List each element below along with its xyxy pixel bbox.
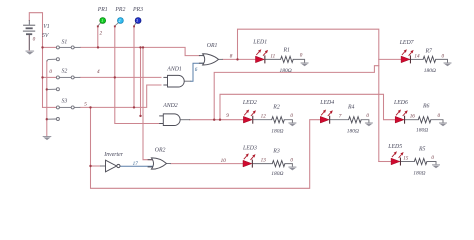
- svg-text:4: 4: [97, 68, 100, 75]
- svg-text:PR3: PR3: [132, 7, 143, 13]
- svg-text:0: 0: [33, 36, 36, 42]
- svg-text:LED5: LED5: [387, 144, 402, 150]
- svg-text:180Ω: 180Ω: [280, 68, 292, 74]
- svg-text:S2: S2: [62, 69, 68, 75]
- svg-text:10: 10: [221, 158, 227, 164]
- svg-text:R5: R5: [418, 146, 426, 152]
- svg-text:180Ω: 180Ω: [271, 129, 283, 135]
- svg-text:17: 17: [133, 161, 139, 167]
- svg-text:R7: R7: [425, 49, 434, 55]
- svg-text:0: 0: [366, 113, 369, 119]
- svg-text:180Ω: 180Ω: [347, 129, 359, 135]
- svg-text:LED4: LED4: [319, 99, 334, 106]
- svg-text:9: 9: [226, 113, 229, 119]
- svg-text:13: 13: [261, 157, 267, 163]
- svg-text:AND2: AND2: [162, 103, 178, 109]
- svg-text:LED2: LED2: [242, 100, 257, 106]
- svg-text:180Ω: 180Ω: [416, 128, 428, 134]
- svg-text:S3: S3: [62, 99, 68, 105]
- svg-text:1: 1: [101, 19, 103, 23]
- svg-text:0: 0: [438, 113, 441, 119]
- svg-text:8: 8: [230, 54, 233, 60]
- svg-text:5: 5: [84, 101, 87, 107]
- svg-text:LED3: LED3: [242, 146, 257, 152]
- svg-text:11: 11: [270, 54, 275, 60]
- svg-text:180Ω: 180Ω: [413, 170, 425, 176]
- svg-text:OR2: OR2: [155, 147, 166, 153]
- svg-text:12: 12: [261, 113, 267, 119]
- svg-text:LED1: LED1: [252, 40, 267, 46]
- svg-text:Inverter: Inverter: [103, 152, 123, 158]
- svg-text:S1: S1: [62, 39, 68, 45]
- svg-text:OR1: OR1: [207, 43, 218, 49]
- svg-text:LED6: LED6: [393, 100, 408, 106]
- svg-text:PR2: PR2: [114, 7, 125, 13]
- svg-text:180Ω: 180Ω: [424, 68, 436, 74]
- svg-text:0: 0: [49, 69, 52, 75]
- svg-text:PR1: PR1: [97, 7, 108, 13]
- svg-text:AND1: AND1: [166, 66, 182, 72]
- svg-text:0: 0: [290, 113, 293, 119]
- svg-text:R6: R6: [422, 104, 430, 110]
- svg-text:R4: R4: [347, 104, 355, 111]
- svg-text:180Ω: 180Ω: [271, 171, 283, 177]
- svg-text:0: 0: [431, 155, 434, 161]
- svg-text:LED7: LED7: [399, 40, 415, 46]
- svg-text:R1: R1: [283, 47, 291, 53]
- svg-text:3: 3: [136, 19, 138, 23]
- svg-text:2: 2: [119, 19, 121, 23]
- svg-text:0: 0: [442, 54, 445, 60]
- svg-text:6: 6: [195, 67, 198, 73]
- svg-text:R2: R2: [272, 105, 280, 111]
- svg-text:15: 15: [403, 156, 409, 162]
- svg-text:16: 16: [410, 113, 416, 119]
- svg-text:7: 7: [339, 113, 342, 119]
- svg-text:R3: R3: [272, 148, 280, 154]
- svg-text:14: 14: [414, 53, 420, 60]
- svg-text:0: 0: [290, 157, 293, 163]
- svg-text:2: 2: [100, 31, 103, 37]
- svg-text:0: 0: [300, 53, 303, 59]
- svg-text:V1: V1: [43, 24, 50, 30]
